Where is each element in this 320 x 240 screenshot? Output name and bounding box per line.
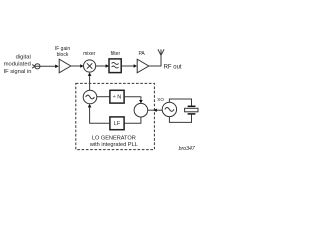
oscillator VCO [83,90,97,104]
filter FL1 (bandpass) [109,59,121,73]
connector J1 (IF input) [32,64,40,69]
svg-text:bro347: bro347 [179,146,196,152]
arrowhead into phase detector top [139,100,143,104]
wire: divider to phase detector [124,97,141,101]
svg-text:filter: filter [111,51,121,57]
mixer M1 [84,60,96,72]
svg-text:modulated: modulated [4,62,31,68]
label: IF gain block [55,46,71,58]
arrowhead into phase detector (reference input) [153,109,156,112]
svg-text:mixer: mixer [83,51,96,57]
phase detector PD [134,103,148,117]
svg-text:block: block [57,52,69,58]
arrowhead into PA [134,64,137,68]
svg-text:RF out: RF out [164,65,182,71]
svg-text:LO GENERATOR: LO GENERATOR [92,136,136,142]
LO generator dashed enclosure [76,83,155,149]
divider /N [110,90,124,103]
wire: PA to antenna node [149,55,161,66]
wire: VCO to divider [97,96,110,98]
arrowhead into VCO bottom [88,104,92,108]
wire: loop filter to VCO control [90,107,110,123]
svg-text:digital: digital [16,54,31,60]
arrowhead into filter [106,64,109,68]
crystal Y1 [185,106,198,114]
wire: connector to IF amp [35,65,56,67]
amplifier PA [137,59,149,73]
svg-text:PA: PA [138,51,145,57]
wire: crystal to XO bottom [169,115,191,123]
wire: XO to phase detector [148,109,163,111]
node: digital modulated IF signal in label [3,54,31,75]
wire: XO top to crystal [169,99,191,106]
antenna ANT1 [158,49,164,55]
loop filter LF [110,117,124,130]
svg-text:XO: XO [157,97,164,102]
amplifier A1: IF gain block [59,59,71,73]
svg-text:÷ N: ÷ N [113,95,122,101]
wire: mixer to filter [96,65,106,67]
arrowhead into mixer [80,64,83,68]
svg-text:IF signal in: IF signal in [3,69,31,75]
svg-text:LF: LF [114,121,121,127]
arrowhead into IF amp [55,65,59,69]
oscillator XO [162,102,176,116]
wire: IF amp to mixer [71,65,81,67]
wire: filter to PA [121,65,134,67]
arrowhead into mixer bottom [88,72,92,76]
wire: VCO to mixer (LO injection) [89,75,91,90]
wire: phase detector to loop filter [124,117,141,123]
svg-text:with integrated PLL: with integrated PLL [89,142,138,148]
